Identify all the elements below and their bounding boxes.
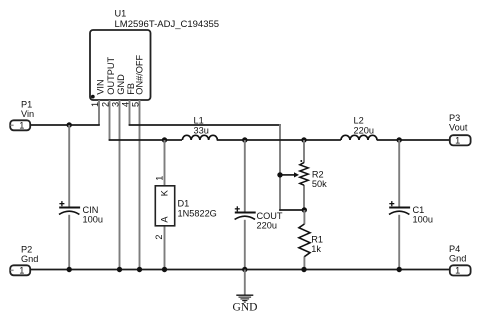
node junction C1 bottom gnd	[397, 267, 402, 272]
node junction U1 pin3 gnd	[117, 267, 122, 272]
wire FB vertical drop	[279, 124, 281, 211]
wire ground rail	[30, 269, 450, 271]
connector P1	[10, 100, 34, 131]
node junction D1 anode gnd	[162, 267, 167, 272]
svg-text:100u: 100u	[83, 215, 103, 225]
capacitor C1	[389, 140, 433, 270]
node junction COUT top	[242, 137, 247, 142]
svg-text:220u: 220u	[257, 221, 277, 231]
diode D1	[154, 140, 217, 270]
node junction CIN bottom	[67, 267, 72, 272]
wire U1 pin5 to ground rail	[139, 100, 141, 270]
connector P2	[10, 245, 38, 276]
svg-text:Gnd: Gnd	[21, 254, 38, 264]
wire P1 to U1 pin1 (Vin net)	[30, 124, 100, 126]
connector P4	[449, 244, 471, 276]
node junction R2 top	[301, 137, 306, 142]
ground symbol GND	[233, 270, 258, 314]
inductor L1	[182, 115, 217, 140]
svg-text:A: A	[160, 216, 170, 223]
svg-text:COUT: COUT	[257, 211, 283, 221]
wire U1 pin2 stub	[109, 100, 111, 140]
svg-text:R2: R2	[312, 170, 324, 180]
svg-text:Gnd: Gnd	[449, 254, 466, 264]
svg-text:K: K	[160, 189, 170, 196]
svg-text:1: 1	[455, 136, 460, 146]
svg-text:LM2596T-ADJ_C194355: LM2596T-ADJ_C194355	[115, 19, 220, 30]
node junction D1 cathode	[162, 137, 167, 142]
svg-text:Vin: Vin	[21, 109, 34, 119]
svg-text:L2: L2	[354, 116, 364, 126]
wire U1 pin3 to ground rail	[119, 100, 121, 270]
svg-text:C1: C1	[413, 205, 425, 215]
inductor L2	[341, 116, 377, 141]
svg-text:1k: 1k	[311, 244, 321, 254]
node junction COUT bottom / GND symbol	[242, 267, 247, 272]
svg-text:2: 2	[154, 234, 164, 239]
svg-text:OUTPUT: OUTPUT	[106, 57, 116, 95]
svg-text:U1: U1	[115, 9, 127, 19]
svg-text:ON#/OFF: ON#/OFF	[135, 54, 145, 94]
svg-text:Vout: Vout	[449, 123, 468, 133]
potentiometer R2	[280, 140, 327, 210]
svg-text:1: 1	[155, 176, 165, 181]
svg-text:1: 1	[19, 265, 24, 275]
wire FB bottom to R2/R1 junction	[279, 209, 305, 211]
svg-text:1: 1	[19, 120, 24, 130]
wire OUTPUT: U1 pin2 to L1	[109, 139, 182, 141]
svg-text:CIN: CIN	[83, 205, 99, 215]
capacitor CIN	[59, 125, 103, 270]
svg-text:P3: P3	[449, 113, 460, 123]
svg-text:33u: 33u	[194, 125, 209, 135]
wire FB: U1 pin4 horizontal	[129, 124, 281, 126]
svg-text:GND: GND	[116, 74, 126, 95]
svg-text:100u: 100u	[413, 215, 433, 225]
node junction C1 top	[397, 137, 402, 142]
svg-text:L1: L1	[194, 115, 204, 125]
resistor R1	[299, 210, 323, 270]
svg-text:D1: D1	[178, 199, 190, 209]
node junction Vin/CIN	[67, 122, 72, 127]
svg-text:P4: P4	[449, 244, 460, 254]
svg-text:P2: P2	[21, 245, 32, 255]
node junction R2 bottom / R1 top	[302, 207, 307, 212]
svg-text:1N5822G: 1N5822G	[178, 209, 217, 219]
svg-text:220u: 220u	[354, 125, 374, 135]
wire L2 to P3 (Vout net)	[377, 139, 450, 141]
svg-text:GND: GND	[233, 302, 258, 314]
svg-text:1: 1	[455, 266, 460, 276]
svg-text:50k: 50k	[312, 179, 327, 189]
op-amp U1	[90, 30, 151, 100]
wire L1 to L2 (SW net)	[217, 139, 341, 141]
node junction FB wiper	[277, 172, 282, 177]
wire U1 pin4 stub	[129, 100, 131, 125]
svg-text:VIN: VIN	[95, 79, 105, 94]
node junction U1 pin5 gnd	[137, 267, 142, 272]
node junction R1 bottom gnd	[301, 267, 306, 272]
connector P3	[449, 113, 471, 146]
wire U1 pin1 stub	[98, 100, 100, 125]
U1 reference label	[115, 9, 220, 31]
capacitor COUT	[235, 140, 283, 270]
